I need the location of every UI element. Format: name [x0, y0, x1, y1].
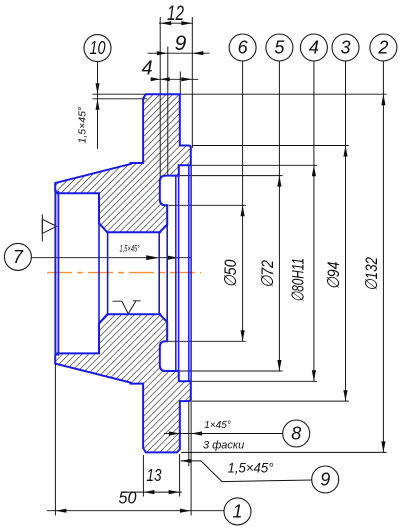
svg-text:3: 3 — [340, 38, 350, 58]
ext line x192.3 right face top — [191, 17, 193, 148]
balloon 10 — [84, 35, 111, 62]
ext line x160 for dim 12 — [159, 17, 161, 181]
balloon 7 leader — [31, 257, 191, 259]
row d94 top — [192, 145, 349, 147]
svg-text:4: 4 — [309, 38, 319, 58]
balloon 2 — [370, 34, 397, 61]
row flange bottom y452 — [181, 451, 387, 453]
dimension 50 line to balloon 1 — [47, 510, 224, 512]
datum triangle — [41, 214, 43, 241]
row d50 top — [169, 204, 246, 206]
ext line x167.8 for dim 9 — [167, 47, 169, 176]
ext line x143 bottom — [142, 455, 144, 497]
svg-text:∅132: ∅132 — [362, 257, 381, 291]
svg-text:1×45°: 1×45° — [204, 420, 231, 431]
row d94 bottom — [192, 400, 349, 402]
row d50 bottom — [166, 340, 245, 342]
hatch upper half section — [55, 94, 191, 232]
ext line left face bottom — [54, 364, 56, 516]
svg-text:1,5×45°: 1,5×45° — [228, 460, 274, 476]
dimension 4 line — [151, 78, 199, 80]
column d72 balloon 5 — [278, 61, 280, 371]
balloon 7 — [4, 243, 31, 270]
svg-text:∅80H11: ∅80H11 — [289, 258, 308, 302]
dimension 12 line — [159, 22, 193, 24]
svg-text:6: 6 — [238, 38, 249, 58]
dimension 9 line — [148, 52, 210, 54]
svg-text:1,5×45°: 1,5×45° — [120, 244, 140, 254]
balloon 10 leader — [97, 62, 99, 149]
contour step chamfer circle — [175, 176, 177, 371]
svg-text:1,5×45°: 1,5×45° — [77, 107, 89, 144]
svg-text:3 фаски: 3 фаски — [203, 440, 244, 452]
svg-text:8: 8 — [291, 424, 301, 444]
contour mouth chamfer circle — [188, 165, 190, 381]
balloon 3 — [332, 34, 359, 61]
contour right face circle — [190, 165, 192, 381]
hatch lower half section — [55, 314, 191, 452]
svg-text:9: 9 — [175, 32, 187, 55]
dimension 13 line — [127, 491, 182, 493]
ext line x188.8 bottom — [188, 402, 190, 466]
svg-text:12: 12 — [167, 2, 184, 25]
svg-text:2: 2 — [377, 38, 388, 58]
part outline lower — [55, 314, 191, 452]
part outline upper — [55, 94, 191, 232]
balloon 6 — [229, 34, 256, 61]
svg-text:50: 50 — [119, 488, 137, 508]
contour boss face circle — [166, 205, 168, 341]
row d80 top — [192, 164, 317, 166]
svg-text:10: 10 — [90, 38, 106, 58]
balloon 4 — [300, 34, 327, 61]
centerline — [47, 272, 201, 274]
row flange top y94 — [92, 93, 386, 95]
svg-text:∅50: ∅50 — [221, 259, 240, 287]
row d80 bottom — [192, 380, 317, 382]
svg-text:7: 7 — [13, 247, 24, 267]
contour left face circle — [54, 191, 56, 356]
check mark in bore — [112, 301, 140, 314]
contour bore chamfer circle — [158, 232, 160, 314]
column d80 balloon 4 — [313, 61, 315, 382]
contour cone inner circle — [107, 232, 109, 314]
contour left mouth chamfer circle — [57, 191, 59, 356]
ext line x191.1 bottom — [190, 399, 192, 516]
svg-text:∅72: ∅72 — [258, 260, 277, 288]
svg-text:4: 4 — [141, 58, 152, 80]
balloon 1 — [224, 498, 251, 525]
svg-text:1: 1 — [232, 501, 242, 521]
svg-text:9: 9 — [320, 470, 330, 490]
contour cone outer circle — [98, 223, 100, 323]
contour step face circle — [178, 176, 180, 371]
svg-text:5: 5 — [274, 38, 285, 58]
row d72 bottom — [180, 370, 283, 372]
ext line x180.3 for dim 4 — [179, 72, 181, 95]
row chamfer bottom y98.8 — [92, 98, 147, 100]
balloon 9 leader — [181, 461, 313, 482]
balloon 5 — [266, 34, 293, 61]
ext line x179.6 bottom — [179, 454, 181, 497]
row d72 top — [180, 175, 283, 177]
svg-text:13: 13 — [147, 465, 162, 485]
dimension 1x45 line to balloon 8 — [164, 433, 283, 435]
column d50 balloon 6 — [242, 61, 244, 342]
svg-text:∅94: ∅94 — [324, 262, 343, 290]
column d132 balloon 2 — [382, 61, 384, 453]
balloon 8 — [283, 420, 310, 447]
column d94 balloon 3 — [345, 61, 347, 401]
balloon 9 — [312, 466, 339, 493]
